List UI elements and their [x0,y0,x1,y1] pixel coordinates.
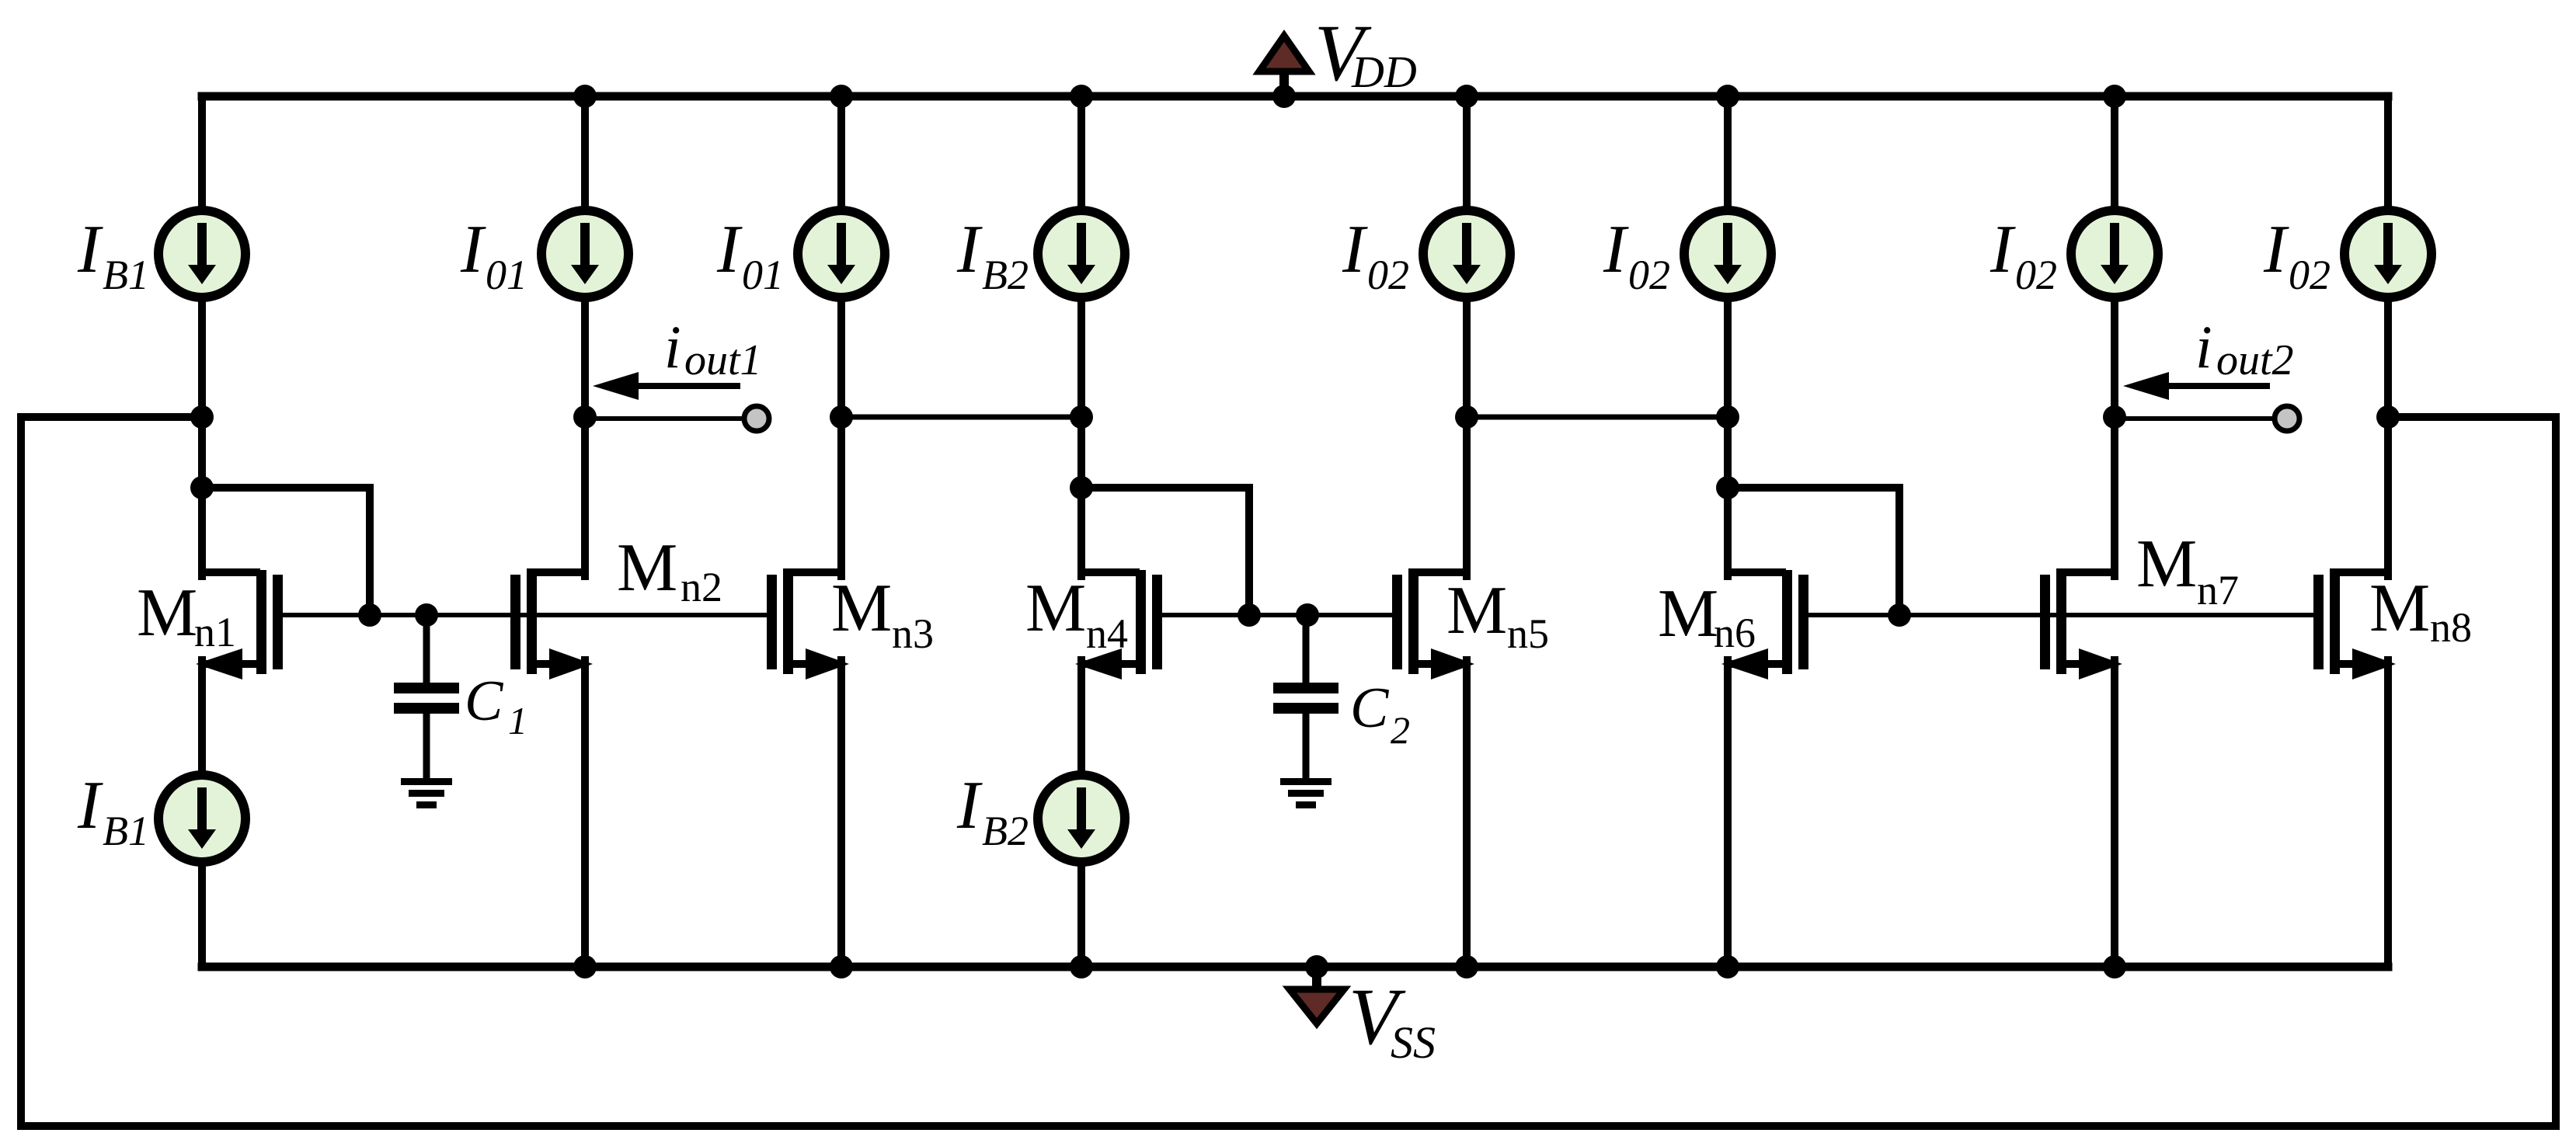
label Mn7 [2136,527,2239,613]
svg-text:n6: n6 [1714,610,1756,656]
svg-text:I: I [956,768,983,843]
label IB1 bottom [77,768,149,854]
svg-text:M: M [137,575,197,651]
label Mn6 [1658,576,1756,656]
wire column2 source [581,660,589,967]
svg-text:M: M [1658,576,1718,652]
wire column6 top [1724,96,1732,210]
junction on VDD rail x=1083 [830,85,853,108]
capacitor C2 [1273,615,1338,780]
svg-text:02: 02 [1367,252,1409,298]
svg-text:i: i [664,313,681,381]
VDD stem [1279,75,1289,96]
label VSS [1349,972,1436,1068]
wire Mn6 diode feedback [1728,488,1899,615]
current source I01 b [798,210,885,297]
wire column8 top [2384,96,2392,210]
svg-text:02: 02 [2289,252,2331,298]
wire column1 source [198,660,206,775]
wire column6 source [1724,660,1732,967]
wire column4 source [1077,660,1085,775]
svg-text:I: I [1342,212,1368,287]
wire gate net Mn6-Mn7-Mn8 [1803,613,2320,617]
label IB2 top [956,212,1029,298]
junction on VDD rail x=2722 [2103,85,2126,108]
wire column4 mid [1077,298,1085,576]
wire VDD top rail [202,92,2388,101]
wire column4 bottom [1077,862,1085,967]
svg-text:n2: n2 [681,564,722,610]
label VDD [1314,9,1417,98]
wire column7 mid [2111,298,2118,576]
wire column5 top [1463,96,1471,210]
capacitor C1 [394,615,459,780]
junction on VSS rail x=1695 [1305,955,1328,978]
transistor Mn4 [1075,570,1162,679]
svg-text:B1: B1 [103,252,149,298]
svg-text:1: 1 [508,699,527,742]
wire column2 mid [581,298,589,576]
svg-text:n3: n3 [892,610,934,657]
svg-text:C: C [1350,676,1390,740]
junction on VSS rail x=1083 [830,955,853,978]
output terminal iout1 [744,406,769,431]
svg-text:02: 02 [1628,252,1670,298]
label iout2 [2195,313,2294,384]
wire column6 mid [1724,298,1732,576]
wire gate net Mn4-Mn5 [1157,613,1398,617]
current source I02 b [1684,210,1771,297]
label C1 [465,669,527,742]
junction gate line x=549 [415,603,438,627]
svg-text:01: 01 [486,252,527,298]
svg-text:B2: B2 [982,252,1029,298]
wire column3 mid [837,298,845,576]
label Mn8 [2369,571,2472,651]
wire Mn8 drain node to outer loop [2388,413,2556,421]
svg-text:I: I [77,212,103,287]
VDD symbol [1259,36,1309,71]
svg-text:M: M [2369,571,2430,646]
current source IB1 top [158,210,245,297]
svg-text:B2: B2 [982,808,1029,854]
junction on VSS rail x=1392 [1070,955,1093,978]
wire column5 source [1463,660,1471,967]
wire gate net Mn1-Mn2-Mn3 [277,613,772,617]
wire Mn1 diode feedback [202,488,370,615]
label Mn4 [1025,571,1128,657]
junction on VDD rail x=1653 [1272,85,1296,108]
wire column1 mid [198,298,206,576]
junction on VSS rail x=2722 [2103,955,2126,978]
svg-text:M: M [1025,571,1086,646]
junction node row x=2722 [2103,405,2126,429]
junction gate line x=1608 [1238,603,1261,627]
current source IB2 bottom [1038,775,1125,862]
wire iout1 output stub [585,416,744,421]
transistor Mn3 [767,570,849,679]
junction drain-gate x=260 [190,476,214,499]
svg-text:2: 2 [1391,708,1410,752]
svg-text:I: I [716,212,743,287]
wire column5 mid [1463,298,1471,576]
iout2 current arrow [2123,372,2270,400]
wire column3 top [837,96,845,210]
junction on VSS rail x=753 [573,955,597,978]
svg-text:n7: n7 [2197,567,2239,613]
current source I02 c [2071,210,2158,297]
svg-text:M: M [617,530,677,606]
current source I02 d [2345,210,2432,297]
label I02 b [1603,212,1670,298]
svg-text:M: M [2136,527,2197,602]
wire column4 top [1077,96,1085,210]
junction on VDD rail x=2224 [1716,85,1739,108]
junction on VDD rail x=753 [573,85,597,108]
svg-text:i: i [2195,313,2212,381]
junction node row x=1083 [830,405,853,429]
label IB2 bottom [956,768,1029,854]
output terminal iout2 [2275,406,2299,431]
junction gate line x=476 [358,603,381,627]
junction on VDD rail x=1392 [1070,85,1093,108]
junction node row x=3074 [2376,405,2400,429]
junction gate line x=2445 [1888,603,1911,627]
label I01 b [716,212,784,298]
current source I02 a [1423,210,1510,297]
wire column2 top [581,96,589,210]
svg-text:SS: SS [1391,1017,1436,1068]
transistor Mn5 [1392,570,1474,679]
svg-text:n4: n4 [1086,610,1128,657]
junction on VSS rail x=2224 [1716,955,1739,978]
wire outer feedback loop left/bottom/right [21,417,2556,1126]
wire node Mn5-Mn6 [1467,415,1728,420]
ground under C1 [401,778,452,808]
label C2 [1350,676,1410,752]
current source IB2 top [1038,210,1125,297]
current source I01 a [541,210,628,297]
junction on VDD rail x=1888 [1455,85,1478,108]
label I02 a [1342,212,1409,298]
svg-text:I: I [956,212,983,287]
label I02 c [1989,212,2057,298]
transistor Mn2 [510,570,593,679]
wire column8 source [2384,660,2392,967]
junction drain-gate x=2224 [1716,476,1739,499]
svg-text:I: I [460,212,486,287]
svg-text:n8: n8 [2430,604,2472,651]
current source IB1 bottom [158,775,245,862]
junction on VSS rail x=1888 [1455,955,1478,978]
junction drain-gate x=1392 [1070,476,1093,499]
transistor Mn8 [2313,570,2396,679]
svg-text:I: I [2263,212,2289,287]
wire column7 source [2111,660,2118,967]
label iout1 [664,313,762,384]
svg-text:M: M [831,571,892,646]
junction node row x=260 [190,405,214,429]
label I02 d [2263,212,2331,298]
svg-text:M: M [1446,573,1507,648]
wire column3 source [837,660,845,967]
svg-text:n1: n1 [194,609,236,655]
junction gate line x=1683 [1296,603,1319,627]
svg-text:I: I [1989,212,2016,287]
svg-text:B1: B1 [103,808,149,854]
wire node Mn3-Mn4 [841,415,1081,420]
svg-text:DD: DD [1351,47,1417,97]
label I01 a [460,212,527,298]
wire column8 mid [2384,298,2392,576]
transistor Mn6 [1721,570,1808,679]
wire column1 top [198,96,206,210]
wire column7 top [2111,96,2118,210]
transistor Mn1 [196,570,283,679]
VSS symbol [1290,989,1344,1024]
label Mn3 [831,571,934,657]
junction node row x=1392 [1070,405,1093,429]
svg-text:C: C [465,669,504,733]
label Mn2 [617,530,722,610]
ground under C2 [1280,778,1332,808]
wire iout2 output stub [2115,416,2275,421]
svg-text:out1: out1 [684,336,762,384]
iout1 current arrow [593,372,740,400]
wire Mn4 diode feedback [1081,488,1249,615]
junction node row x=2224 [1716,405,1739,429]
svg-text:I: I [1603,212,1629,287]
label Mn1 [137,575,236,655]
svg-text:02: 02 [2015,252,2057,298]
wire node A to outer loop [21,413,202,421]
svg-text:01: 01 [742,252,784,298]
label IB1 top [77,212,149,298]
svg-text:out2: out2 [2216,336,2294,384]
svg-text:I: I [77,768,103,843]
VSS stem [1312,967,1321,988]
transistor Mn7 [2040,570,2122,679]
wire VSS bottom rail [202,963,2388,971]
label Mn5 [1446,573,1549,657]
svg-text:n5: n5 [1507,610,1549,657]
wire column1 bottom [198,862,206,967]
junction node row x=1888 [1455,405,1478,429]
junction node row x=753 [573,405,597,429]
